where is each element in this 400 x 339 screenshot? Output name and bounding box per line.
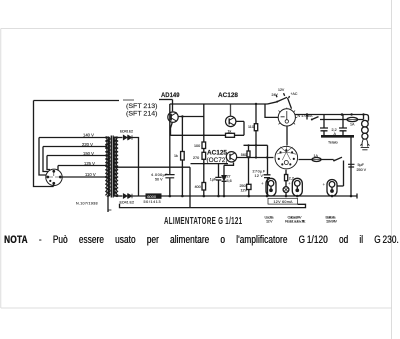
svg-text:AD149: AD149 (161, 92, 180, 99)
svg-text:140 V: 140 V (83, 133, 94, 138)
svg-text:250 V: 250 V (357, 168, 367, 172)
svg-text:1A: 1A (350, 122, 355, 126)
svg-text:+: + (288, 181, 291, 186)
svg-text:12V- 24V: 12V- 24V (326, 220, 337, 224)
svg-text:Telaio: Telaio (328, 140, 338, 144)
svg-text:+AC: +AC (291, 92, 298, 96)
svg-text:1k: 1k (228, 130, 232, 134)
svg-text:Resist. autov. filtr.: Resist. autov. filtr. (285, 220, 306, 224)
svg-text:N.107/1938: N.107/1938 (76, 202, 98, 206)
svg-text:EO41 E2: EO41 E2 (120, 201, 135, 205)
svg-text:150 V: 150 V (83, 151, 94, 156)
svg-text:400: 400 (195, 185, 201, 189)
svg-text:+: + (323, 182, 326, 187)
svg-text:5,6: 5,6 (227, 179, 232, 183)
svg-text:270: 270 (193, 156, 199, 160)
svg-text:1k: 1k (174, 154, 178, 158)
svg-text:5µF: 5µF (358, 163, 365, 167)
svg-text:560: 560 (241, 153, 247, 157)
svg-text:12 V: 12 V (266, 220, 273, 224)
svg-text:2,2: 2,2 (289, 177, 294, 181)
svg-text:110 V: 110 V (85, 172, 96, 177)
svg-text:27: 27 (227, 175, 231, 179)
svg-text:AC128: AC128 (218, 92, 238, 99)
svg-text:(SFT 214): (SFT 214) (126, 111, 158, 118)
svg-text:1µF: 1µF (210, 178, 217, 182)
svg-text:(OC72): (OC72) (207, 157, 228, 164)
svg-text:6000: 6000 (147, 194, 157, 199)
svg-text:50 V: 50 V (155, 178, 163, 182)
svg-text:+: + (261, 181, 264, 186)
svg-text:1A: 1A (314, 154, 319, 158)
svg-text:220 V: 220 V (82, 142, 93, 147)
svg-text:100: 100 (194, 144, 200, 148)
svg-text:12V: 12V (278, 88, 285, 92)
svg-text:110: 110 (248, 125, 254, 129)
svg-text:24V: 24V (272, 93, 279, 97)
svg-text:270µF: 270µF (253, 169, 266, 173)
svg-text:12V: 12V (241, 189, 248, 193)
svg-text:12V 60mA: 12V 60mA (274, 200, 294, 204)
svg-text:N 1738/A: N 1738/A (298, 114, 314, 118)
svg-text:4.000µF: 4.000µF (151, 173, 168, 177)
svg-text:125 V: 125 V (84, 161, 95, 166)
svg-text:50/1413: 50/1413 (144, 200, 161, 204)
svg-text:250: 250 (240, 184, 246, 188)
svg-text:EO41 E2: EO41 E2 (120, 130, 133, 134)
svg-text:AC125: AC125 (207, 149, 227, 156)
svg-text:12 V: 12 V (255, 174, 264, 178)
svg-text:(SFT 213): (SFT 213) (126, 103, 158, 110)
